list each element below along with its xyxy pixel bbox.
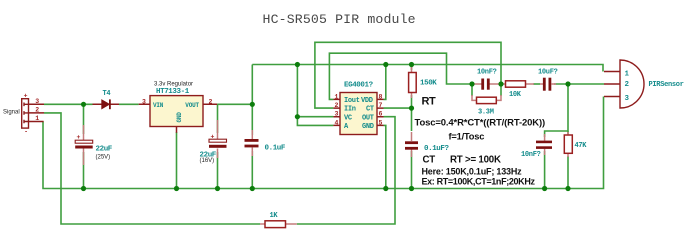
svg-text:IIn: IIn <box>344 106 356 114</box>
node: gnd regulator <box>174 186 179 191</box>
svg-text:GND: GND <box>362 123 374 131</box>
svg-text:7: 7 <box>379 102 383 109</box>
wire: VDD rail riser from VOUT node <box>251 65 253 105</box>
wire: 10uF right to PIR pin2 <box>554 83 604 85</box>
annotation: Tosc formula <box>415 118 546 129</box>
annotation: Here line <box>422 167 523 177</box>
svg-text:Here: 150K,0.1uF; 133Hz: Here: 150K,0.1uF; 133Hz <box>422 167 523 177</box>
svg-text:3: 3 <box>335 111 339 118</box>
wire: 10K to 10uF segment <box>533 83 540 85</box>
svg-text:T4: T4 <box>103 90 111 98</box>
wire: GND pin5 riser <box>384 125 386 188</box>
node: gnd 22uF25V <box>81 186 86 191</box>
node: gnd 22uF16V <box>215 186 220 191</box>
svg-text:VC: VC <box>344 114 352 122</box>
node: junction VC tee <box>295 114 300 119</box>
svg-text:150K: 150K <box>420 80 437 88</box>
wire: VDD pin8 riser <box>384 65 386 100</box>
IC U1 EG4001 <box>333 82 383 135</box>
svg-text:2: 2 <box>625 81 630 89</box>
svg-text:+: + <box>24 92 28 99</box>
svg-text:0.1uF: 0.1uF <box>265 145 286 153</box>
svg-text:1K: 1K <box>270 212 279 220</box>
svg-text:1: 1 <box>625 71 630 79</box>
annotation: f=1/Tosc <box>449 132 485 142</box>
wire: 22uF 16V bottom lead <box>217 152 219 189</box>
resistor R 3.3M <box>472 95 501 117</box>
wire: regulator GND lead <box>176 132 178 189</box>
wire: 22uF 25V bottom lead <box>83 152 85 189</box>
svg-text:47K: 47K <box>575 142 588 150</box>
node: rail junction VDD pin riser <box>383 62 388 67</box>
diode T4 <box>93 90 120 109</box>
svg-text:CT: CT <box>423 155 436 166</box>
wire: RT top lead rail to resistor <box>411 65 413 71</box>
svg-text:Tosc=0.4*R*CT*((RT/(RT-20K)): Tosc=0.4*R*CT*((RT/(RT-20K)) <box>415 118 546 129</box>
capacitor C 10nF? feedback <box>474 69 499 90</box>
resistor R 10K <box>501 81 534 99</box>
node: junction B (3.3M/10nF right) <box>498 81 503 86</box>
node: junction CT node <box>409 106 414 111</box>
wire: 47K/10nF riser from node <box>545 84 568 137</box>
svg-text:1: 1 <box>335 93 339 100</box>
resistor R 1K <box>260 212 297 228</box>
wire: 0.1uF bottom lead <box>251 151 253 189</box>
wire: 47K bottom lead <box>567 156 569 189</box>
capacitor C 22uF 16V electrolytic <box>200 120 227 164</box>
wire: VDD top rail <box>252 65 603 72</box>
wire: CT cap bottom lead <box>411 151 413 189</box>
wire: IIn net top run <box>315 42 501 108</box>
svg-text:6: 6 <box>379 111 383 118</box>
annotation: CT <box>423 155 436 166</box>
svg-text:GND: GND <box>176 112 183 123</box>
node: gnd 47K <box>565 186 570 191</box>
wire: 1K left to connector pin2 <box>44 113 260 224</box>
svg-text:RT: RT <box>422 95 436 107</box>
svg-text:10uF?: 10uF? <box>538 69 558 77</box>
svg-text:22uF: 22uF <box>96 146 113 154</box>
node: rail junction VC/A riser <box>295 62 300 67</box>
svg-text:CT: CT <box>366 106 374 114</box>
wire: ground rail <box>43 97 604 189</box>
svg-text:10K: 10K <box>509 91 522 99</box>
wire: 10nF bottom cap lead <box>544 151 546 189</box>
node: rail junction 150K top <box>409 62 414 67</box>
svg-text:10nF?: 10nF? <box>521 151 541 159</box>
svg-text:3: 3 <box>35 98 39 105</box>
svg-text:+: + <box>77 134 81 141</box>
svg-text:EG4001?: EG4001? <box>344 82 374 90</box>
node: gnd 0.1uF <box>250 186 255 191</box>
annotation: Ex line <box>422 177 536 187</box>
svg-text:3.3v Regulator: 3.3v Regulator <box>154 81 193 87</box>
voltage regulator U HT7133-1 <box>139 81 217 132</box>
capacitor C 10nF? output filter <box>521 134 552 159</box>
wire: 3.3M branch left <box>471 84 473 96</box>
svg-text:-: - <box>24 128 28 135</box>
wire: VC/A riser <box>297 65 333 126</box>
wire: 3.3M branch right <box>500 84 502 96</box>
svg-text:RT >= 100K: RT >= 100K <box>450 155 501 166</box>
svg-text:2: 2 <box>209 98 213 105</box>
svg-text:3: 3 <box>625 95 630 103</box>
resistor R 47K <box>564 132 587 157</box>
svg-text:VDD: VDD <box>361 97 373 105</box>
svg-text:HT7133-1: HT7133-1 <box>156 88 190 96</box>
wire: CT net <box>384 95 412 131</box>
wire: 22uF 16V top lead <box>217 104 219 133</box>
node: gnd 10nF <box>542 186 547 191</box>
svg-text:(25V): (25V) <box>96 155 111 161</box>
node: junction VOUT / 0.1uF <box>250 102 255 107</box>
node: gnd IC pin5 <box>383 186 388 191</box>
PIR sensor U2 <box>604 60 684 108</box>
svg-text:2: 2 <box>35 107 39 114</box>
svg-text:PIRSensor: PIRSensor <box>649 81 684 89</box>
svg-text:+: + <box>211 134 215 141</box>
wire: OUT net down to 1K <box>297 117 395 224</box>
svg-text:HC-SR505 PIR module: HC-SR505 PIR module <box>263 12 416 27</box>
wire: 22uF 25V top lead <box>83 104 85 134</box>
capacitor CT 0.1uF? <box>405 132 450 157</box>
svg-text:0.1uF?: 0.1uF? <box>424 145 450 153</box>
annotation: RT >= 100K <box>450 155 501 166</box>
resistor RT 150K <box>409 67 438 107</box>
svg-text:8: 8 <box>379 93 383 100</box>
capacitor C 10uF? coupling <box>538 69 558 91</box>
wire: 0.1uF top lead <box>251 104 253 135</box>
svg-text:(16V): (16V) <box>200 158 215 164</box>
wire: main 5V input net (connector pin3 to VIN) <box>44 103 139 105</box>
svg-text:OUT: OUT <box>362 114 374 122</box>
svg-text:VIN: VIN <box>153 102 164 109</box>
capacitor C 22uF 25V electrolytic <box>75 125 113 165</box>
svg-text:2: 2 <box>335 102 339 109</box>
svg-text:10nF?: 10nF? <box>477 69 497 77</box>
wire: 47K top lead <box>567 131 569 134</box>
svg-text:5: 5 <box>379 119 383 126</box>
node: junction at 22uF/25V tap <box>81 102 86 107</box>
svg-text:3.3M: 3.3M <box>478 109 494 117</box>
node: junction 10uF right / 47K <box>565 81 570 86</box>
capacitor C 0.1uF <box>245 130 286 156</box>
wire: VOUT 3.3V net <box>217 103 252 105</box>
svg-text:4: 4 <box>335 119 339 126</box>
svg-text:1: 1 <box>35 115 39 122</box>
svg-text:VOUT: VOUT <box>185 102 199 109</box>
node: gnd CT cap <box>409 186 414 191</box>
svg-text:3: 3 <box>142 98 146 105</box>
svg-text:Ex: RT=100K,CT=1nF;20KHz: Ex: RT=100K,CT=1nF;20KHz <box>422 177 536 187</box>
svg-text:Signal: Signal <box>3 110 20 116</box>
wire: Iout net top run <box>329 53 472 99</box>
node: junction A (3.3M/10nF left) <box>469 81 474 86</box>
svg-text:f=1/Tosc: f=1/Tosc <box>449 132 485 142</box>
svg-text:Iout: Iout <box>344 97 360 105</box>
connector J1 Signal <box>3 92 44 135</box>
